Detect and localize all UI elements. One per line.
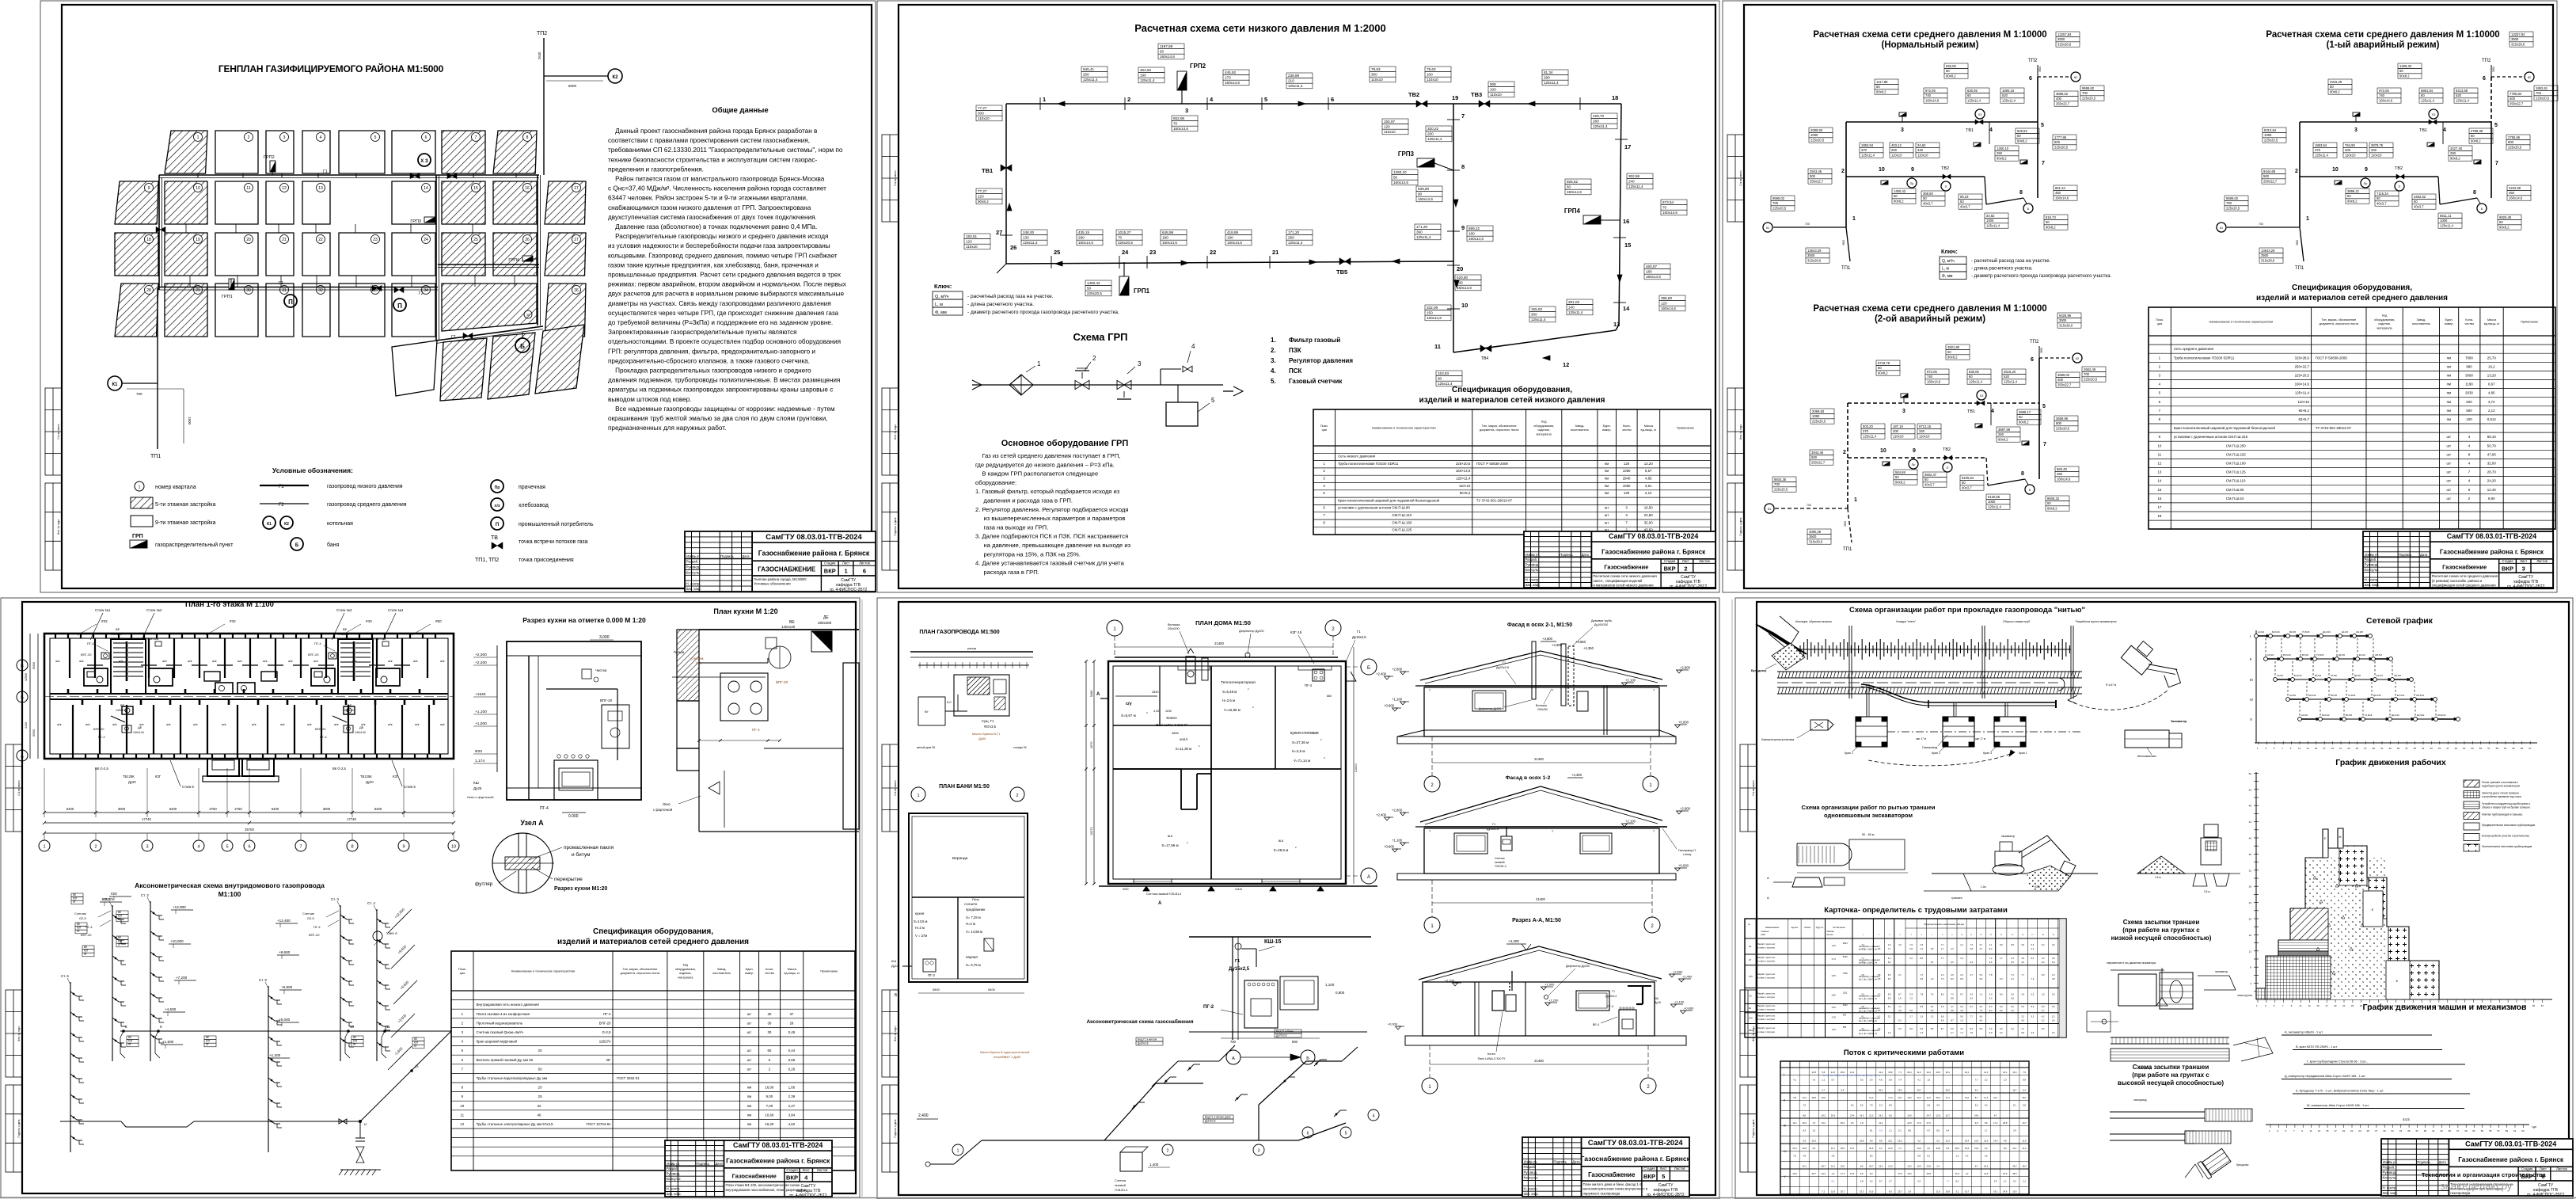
svg-text:8,1: 8,1 — [1832, 1180, 1835, 1183]
svg-text:180: 180 — [1646, 270, 1652, 274]
svg-text:11: 11 — [1970, 934, 1973, 936]
svg-text:+2,300: +2,300 — [475, 653, 487, 657]
svg-text:+2,100: +2,100 — [1445, 979, 1455, 983]
svg-text:(при работе на грунтах с: (при работе на грунтах с — [2122, 927, 2200, 934]
svg-text:7,00: 7,00 — [766, 1104, 773, 1108]
svg-text:110x10: 110x10 — [978, 116, 990, 120]
svg-text:40: 40 — [2249, 837, 2252, 840]
svg-text:#57х3,5: #57х3,5 — [984, 725, 997, 729]
svg-text:11: 11 — [246, 186, 250, 191]
svg-text:18,5: 18,5 — [1841, 1147, 1845, 1150]
svg-text:7,2: 7,2 — [2011, 973, 2014, 976]
svg-text:225x20,5: 225x20,5 — [2054, 146, 2069, 150]
svg-text:ция: ция — [2157, 322, 2162, 325]
svg-text:Зав. каф.: Зав. каф. — [1524, 1192, 1539, 1196]
svg-text:6,3: 6,3 — [2000, 977, 2003, 980]
trench band — [1777, 671, 2082, 672]
svg-text:40а: 40а — [1749, 1029, 1753, 1032]
upper main line — [2300, 121, 2491, 123]
svg-text:ВЕ: ВЕ — [84, 946, 87, 949]
svg-text:2: 2 — [1323, 469, 1325, 473]
svg-text:ГОСТ 10704-91: ГОСТ 10704-91 — [586, 1122, 611, 1126]
svg-text:4410: 4410 — [25, 722, 28, 729]
svg-text:3315,29: 3315,29 — [2330, 80, 2342, 84]
svg-text:изделия,: изделия, — [679, 972, 691, 975]
svg-text:Инв. № подл.: Инв. № подл. — [1739, 424, 1742, 440]
svg-text:30: 30 — [767, 1021, 771, 1025]
svg-text:1: 1 — [917, 794, 919, 798]
svg-text:3: 3 — [1901, 128, 1904, 133]
svg-text:19: 19 — [2331, 747, 2335, 750]
svg-text:Ду70х2,8: Ду70х2,8 — [1276, 1033, 1287, 1037]
svg-text:Ж5,6/3: Ж5,6/3 — [2375, 653, 2382, 657]
svg-text:1405,33: 1405,33 — [2399, 64, 2412, 68]
svg-text:+2,400: +2,400 — [1682, 975, 1693, 979]
svg-text:1,6: 1,6 — [1888, 1031, 1891, 1034]
svg-text:50: 50 — [1946, 69, 1950, 73]
svg-text:27б: 27б — [1749, 975, 1753, 978]
svg-text:пм: пм — [2447, 364, 2451, 368]
svg-text:2755,66: 2755,66 — [2508, 135, 2521, 139]
svg-text:Ж5,6/13: Ж5,6/13 — [2437, 714, 2446, 717]
svg-text:2089,93: 2089,93 — [1812, 409, 1825, 413]
svg-text:16,20: 16,20 — [765, 1122, 774, 1126]
first floor distribution line — [120, 1030, 451, 1032]
svg-text:5: 5 — [226, 845, 228, 850]
block 18 — [115, 233, 158, 276]
svg-text:120: 120 — [966, 240, 972, 244]
svg-text:знаю-делаю.ру: знаю-делаю.ру — [2441, 1180, 2513, 1192]
svg-text:3: 3 — [1902, 409, 1905, 414]
svg-text:СМ.П.Ш.110: СМ.П.Ш.110 — [1338, 513, 1411, 517]
svg-text:Ст. 3: Ст. 3 — [331, 897, 339, 901]
svg-text:траншея: траншея — [1951, 896, 1962, 900]
svg-text:160x14,6: 160x14,6 — [1162, 241, 1177, 245]
svg-text:номер квартала: номер квартала — [155, 485, 196, 490]
svg-text:3: 3 — [2354, 128, 2358, 133]
svg-text:51: 51 — [2473, 1129, 2476, 1132]
svg-text:50: 50 — [2347, 194, 2351, 198]
svg-text:3943,46: 3943,46 — [1810, 169, 1822, 173]
svg-text:3500: 3500 — [2040, 348, 2043, 353]
right vertical street — [537, 175, 538, 325]
svg-text:90x8,2: 90x8,2 — [1997, 157, 2007, 161]
svg-text:2,93: 2,93 — [1832, 1006, 1837, 1009]
svg-text:Г, кран-трубоукладчик Стрела 5: Г, кран-трубоукладчик Стрела 58-36 - 3 ш… — [2307, 1060, 2368, 1064]
svg-text:ТВ: ТВ — [491, 535, 498, 541]
svg-text:Н. контр.: Н. контр. — [2365, 578, 2379, 582]
svg-text:ТП1: ТП1 — [1843, 547, 1852, 552]
svg-text:229,70: 229,70 — [1593, 114, 1604, 118]
svg-text:4: 4 — [1373, 1114, 1375, 1119]
svg-text:2,96: 2,96 — [1832, 994, 1837, 997]
svg-text:6: 6 — [2483, 76, 2486, 82]
svg-text:125x11,4: 125x11,4 — [1288, 84, 1303, 88]
svg-text:Все надземные газопроводы защи: Все надземные газопроводы защищены от ко… — [608, 405, 835, 413]
svg-text:27г: 27г — [1749, 995, 1752, 998]
svg-text:290: 290 — [1544, 76, 1550, 80]
svg-text:3,8: 3,8 — [2052, 977, 2055, 980]
svg-text:Ду15: Ду15 — [1655, 1001, 1661, 1004]
svg-text:Дата: Дата — [2439, 1160, 2447, 1164]
svg-text:К1: К1 — [1766, 226, 1769, 230]
svg-text:50: 50 — [2017, 134, 2021, 138]
svg-text:1450,42: 1450,42 — [1087, 281, 1100, 285]
svg-text:4,2: 4,2 — [2011, 1027, 2014, 1030]
block 1 — [165, 131, 207, 173]
svg-text:ВПГ-20: ВПГ-20 — [81, 933, 92, 937]
svg-text:37: 37 — [2405, 747, 2408, 750]
svg-text:Подпись: Подпись — [1554, 1160, 1567, 1164]
svg-text:15,6: 15,6 — [1965, 1147, 1970, 1150]
filter (diamond) — [1009, 375, 1033, 395]
svg-text:КЗГ: КЗГ — [206, 1040, 211, 1043]
svg-text:2,5: 2,5 — [1851, 1121, 1854, 1125]
svg-text:16,7: 16,7 — [1965, 1189, 1970, 1193]
svg-text:14,6: 14,6 — [1984, 1172, 1989, 1175]
svg-text:27: 27 — [2375, 1129, 2378, 1132]
svg-text:ТВ1: ТВ1 — [1967, 409, 1975, 414]
svg-text:Разраб. грунта экс: Разраб. грунта экс — [1757, 942, 1776, 946]
svg-text:5: 5 — [374, 135, 377, 140]
svg-text:шт: шт — [747, 1049, 752, 1052]
svg-text:пм: пм — [1605, 477, 1609, 481]
svg-text:50: 50 — [2414, 200, 2418, 204]
svg-text:давления подземная, трубопрово: давления подземная, трубопроводы полиэти… — [608, 377, 840, 384]
svg-text:340: 340 — [1919, 429, 1925, 433]
svg-text:1: 1 — [2159, 356, 2161, 360]
svg-text:Б: Б — [1306, 1056, 1309, 1061]
svg-text:50,70: 50,70 — [2487, 443, 2497, 447]
svg-text:7,1: 7,1 — [1888, 947, 1891, 950]
svg-text:4,7: 4,7 — [1822, 1088, 1825, 1091]
svg-text:2: 2 — [1651, 924, 1654, 929]
svg-text:281,03: 281,03 — [1568, 300, 1579, 304]
svg-text:Устройство колодцев под короба: Устройство колодцев под короба крана и — [2482, 802, 2530, 805]
svg-text:11410: 11410 — [1235, 888, 1242, 891]
svg-text:Расчетная схема сети низкого д: Расчетная схема сети низкого давления — [1593, 574, 1657, 578]
svg-text:1,8: 1,8 — [1860, 1121, 1864, 1125]
svg-text:8,3: 8,3 — [1951, 977, 1954, 980]
sheet paper edge — [40, 1, 876, 592]
svg-text:пм: пм — [747, 1086, 751, 1090]
svg-text:7: 7 — [2282, 1004, 2284, 1007]
svg-text:(2-ой аварийный режим): (2-ой аварийный режим) — [1875, 314, 1985, 324]
svg-text:4: 4 — [462, 1040, 464, 1044]
svg-text:пм: пм — [2447, 383, 2451, 386]
svg-text:8,0: 8,0 — [1941, 993, 1944, 996]
gas pipe on facade — [1424, 685, 1659, 687]
svg-text:6400: 6400 — [374, 807, 382, 811]
svg-text:1,6: 1,6 — [1927, 1079, 1930, 1082]
svg-text:5: 5 — [2042, 404, 2046, 409]
svg-text:СамГТУ 08.03.01-ТГВ-2024: СамГТУ 08.03.01-ТГВ-2024 — [1609, 532, 1698, 540]
svg-text:24,6: 24,6 — [1917, 1147, 1921, 1150]
svg-text:7,9: 7,9 — [1909, 943, 1913, 946]
svg-text:50: 50 — [1923, 196, 1927, 200]
svg-text:+0,800: +0,800 — [1384, 704, 1395, 708]
svg-text:ВПГ-20: ВПГ-20 — [315, 727, 326, 731]
svg-text:584,68: 584,68 — [1895, 470, 1905, 474]
svg-text:8,0: 8,0 — [1920, 957, 1923, 960]
svg-text:2: 2 — [1879, 934, 1880, 936]
svg-text:КЗГ: КЗГ — [414, 1041, 419, 1045]
svg-text:160x14,6: 160x14,6 — [1225, 81, 1240, 85]
svg-text:1000: 1000 — [2440, 219, 2448, 223]
svg-text:В3,6/6: В3,6/6 — [2315, 674, 2322, 677]
svg-text:28: 28 — [789, 1021, 793, 1025]
svg-text:2,2: 2,2 — [1879, 1147, 1883, 1150]
svg-text:ПГ-4: ПГ-4 — [98, 735, 105, 739]
svg-text:23,4: 23,4 — [1850, 1113, 1855, 1117]
svg-text:90x8,2: 90x8,2 — [2471, 139, 2481, 143]
svg-text:Е4,5/11: Е4,5/11 — [2417, 714, 2425, 717]
window marks bottom wall — [1134, 879, 1172, 884]
svg-text:6,2: 6,2 — [1888, 961, 1891, 964]
svg-text:Схема засыпки траншеи: Схема засыпки траншеи — [2133, 1064, 2209, 1071]
stove 4 burners plan — [720, 673, 768, 721]
svg-text:СамГТУ 08.03.01-ТГВ-2024: СамГТУ 08.03.01-ТГВ-2024 — [1588, 1139, 1684, 1147]
svg-text:395,80: 395,80 — [1661, 296, 1672, 300]
svg-text:17: 17 — [2334, 1129, 2337, 1132]
svg-text:Газоснабжение района г. Брянск: Газоснабжение района г. Брянск — [2458, 1155, 2564, 1163]
svg-text:S=5,67 м: S=5,67 м — [1121, 714, 1136, 717]
stepped resource areas — [2305, 858, 2386, 999]
svg-text:2: 2 — [1187, 841, 1188, 844]
svg-text:7,6: 7,6 — [1931, 993, 1934, 996]
svg-text:ж/к: ж/к — [166, 722, 171, 726]
svg-text:5,1: 5,1 — [1898, 1129, 1902, 1132]
svg-text:ед-ницы, кг: ед-ницы, кг — [2484, 322, 2500, 325]
svg-text:СамГТУ 08.03.01-ТГВ-2024: СамГТУ 08.03.01-ТГВ-2024 — [733, 1141, 823, 1149]
workers chart axes — [2255, 772, 2257, 999]
svg-text:парная: парная — [966, 955, 978, 959]
svg-text:1,5: 1,5 — [1960, 1019, 1963, 1022]
svg-text:7,7: 7,7 — [1946, 1180, 1949, 1183]
svg-text:13: 13 — [318, 186, 323, 191]
svg-text:190: 190 — [1140, 74, 1146, 78]
svg-text:225x20,5: 225x20,5 — [1118, 241, 1133, 245]
dashed arc to Kran 1 — [1868, 752, 2015, 766]
svg-text:Примечание: Примечание — [820, 970, 838, 973]
svg-text:5: 5 — [1662, 1173, 1665, 1180]
svg-text:28,2: 28,2 — [1955, 1147, 1960, 1150]
kitchen gas equipment detail — [1189, 936, 1371, 938]
svg-text:5861,94: 5861,94 — [2421, 89, 2434, 93]
svg-text:гр. 4-ФИСПОС-2БТ2: гр. 4-ФИСПОС-2БТ2 — [1647, 1193, 1684, 1197]
svg-text:Сборка и сварка труб: Сборка и сварка труб — [2003, 620, 2030, 623]
svg-text:арматуры на подземных газоп: арматуры на подземных газопроводах запро… — [608, 386, 833, 394]
svg-text:8: 8 — [1323, 520, 1325, 524]
svg-text:ГРП1: ГРП1 — [1134, 287, 1150, 295]
svg-text:35: 35 — [2407, 1129, 2411, 1132]
svg-text:Согласовано: Согласовано — [17, 780, 21, 795]
svg-text:225x20,5: 225x20,5 — [2056, 427, 2070, 431]
svg-text:400: 400 — [2056, 97, 2062, 101]
svg-text:Г1: Г1 — [1492, 823, 1495, 826]
svg-text:10: 10 — [451, 845, 456, 850]
mini tables normal — [1875, 79, 1898, 84]
svg-text:50: 50 — [1947, 350, 1951, 354]
svg-text:пм: пм — [2447, 400, 2451, 404]
svg-text:9: 9 — [2159, 435, 2161, 439]
section body — [1423, 982, 1655, 1036]
GRP flag avar1 — [2353, 112, 2360, 116]
svg-text:50: 50 — [1087, 287, 1092, 291]
svg-text:17: 17 — [2031, 934, 2034, 936]
svg-text:19: 19 — [2053, 934, 2055, 936]
svg-text:4,1: 4,1 — [1917, 1079, 1921, 1082]
svg-text:600: 600 — [2056, 421, 2062, 425]
window in section — [1576, 991, 1609, 1011]
svg-text:+4,600: +4,600 — [165, 1007, 177, 1011]
svg-text:9599,82: 9599,82 — [2082, 86, 2095, 90]
inner vertical main — [1453, 104, 1454, 352]
svg-text:1,2м: 1,2м — [1981, 885, 1986, 889]
svg-text:11: 11 — [461, 1113, 465, 1117]
bulldozer and pipe stack left — [1756, 624, 1791, 646]
svg-text:измер.: измер. — [2445, 322, 2454, 325]
svg-text:3,0: 3,0 — [2011, 993, 2014, 996]
svg-text:2: 2 — [1332, 627, 1335, 632]
svg-text:7: 7 — [2159, 409, 2161, 413]
svg-text:Сетевой график: Сетевой график — [2366, 616, 2434, 626]
svg-text:Чистка: Чистка — [595, 668, 607, 672]
svg-text:2,12: 2,12 — [1645, 491, 1652, 495]
svg-text:кольцевыми. Газопровод среднег: кольцевыми. Газопровод среднего давления… — [608, 252, 838, 259]
svg-text:110x10: 110x10 — [1384, 130, 1396, 134]
svg-text:11Б27п: 11Б27п — [101, 897, 114, 901]
svg-text:63×5,7: 63×5,7 — [2298, 417, 2309, 421]
svg-text:ТВ5: ТВ5 — [1336, 268, 1347, 276]
svg-text:ТП1, ТП2: ТП1, ТП2 — [475, 558, 499, 563]
svg-text:Подпись и дата: Подпись и дата — [1752, 1119, 1755, 1137]
svg-text:315x28,6: 315x28,6 — [1807, 259, 1822, 263]
svg-text:25,3: 25,3 — [1841, 1121, 1845, 1125]
svg-text:120: 120 — [1624, 462, 1630, 466]
svg-text:Консульт.: Консульт. — [2365, 568, 2380, 572]
svg-text:Окончательные испытания трубоп: Окончательные испытания трубопроводов. — [2482, 845, 2532, 848]
svg-text:9,5: 9,5 — [1860, 1079, 1864, 1082]
svg-text:67: 67 — [2541, 1004, 2544, 1007]
svg-text:Газоснабжение района г. Брянск: Газоснабжение района г. Брянск — [726, 1156, 830, 1164]
svg-text:+0,800: +0,800 — [1684, 1007, 1694, 1011]
svg-text:0.000: 0.000 — [568, 814, 579, 819]
svg-text:1890,16: 1890,16 — [2002, 89, 2015, 93]
svg-text:ГОСТ 3262-01: ГОСТ 3262-01 — [617, 1076, 640, 1080]
svg-text:6,3: 6,3 — [1888, 973, 1891, 976]
svg-text:А3,9/2: А3,9/2 — [2258, 630, 2265, 634]
svg-text:6: 6 — [2029, 76, 2032, 82]
svg-text:5,5: 5,5 — [2021, 1019, 2024, 1022]
svg-text:Б: Б — [21, 696, 24, 701]
svg-text:90x8,2: 90x8,2 — [2399, 74, 2410, 78]
svg-text:Вюд Г1 в жилые дома: Вюд Г1 в жилые дома — [1205, 1115, 1231, 1118]
svg-text:14: 14 — [424, 186, 428, 191]
svg-text:ПГ-4: ПГ-4 — [1607, 1005, 1613, 1008]
svg-text:Газоснабжение района г. Брянск: Газоснабжение района г. Брянск — [1601, 547, 1706, 555]
svg-text:Аксонометрическая схема внутри: Аксонометрическая схема внутридомового г… — [135, 881, 325, 889]
svg-text:33: 33 — [2388, 747, 2392, 750]
svg-text:110x10: 110x10 — [2345, 154, 2356, 158]
svg-text:171,20: 171,20 — [1416, 225, 1427, 229]
svg-text:ж.к: ж.к — [1168, 834, 1173, 838]
svg-text:пм: пм — [1605, 491, 1609, 495]
svg-text:СМ.П.Ш.110: СМ.П.Ш.110 — [2174, 479, 2246, 483]
svg-text:41: 41 — [2432, 1129, 2435, 1132]
svg-text:6,2: 6,2 — [2042, 943, 2045, 946]
svg-text:3: 3 — [1258, 1149, 1260, 1154]
svg-text:ВКР: ВКР — [786, 1174, 798, 1181]
svg-text:8: 8 — [2021, 471, 2024, 477]
svg-text:Копел: Копел — [1166, 716, 1177, 721]
svg-text:4: 4 — [1191, 343, 1195, 350]
svg-text:G2,5: G2,5 — [79, 916, 86, 920]
svg-text:1150: 1150 — [1165, 710, 1172, 713]
svg-text:3,2: 3,2 — [1888, 1015, 1891, 1018]
svg-text:ция: ция — [460, 972, 465, 975]
svg-text:Пози-: Пози- — [2156, 318, 2164, 322]
svg-text:ГРП: ГРП — [132, 534, 143, 539]
svg-text:+1,100: +1,100 — [1674, 1000, 1685, 1004]
svg-text:120: 120 — [1661, 302, 1667, 306]
svg-text:926,52: 926,52 — [2017, 129, 2027, 133]
svg-text:7,2: 7,2 — [1898, 1005, 1902, 1008]
svg-text:50 - 80 м: 50 - 80 м — [1862, 833, 1875, 836]
svg-text:ТП1: ТП1 — [1841, 266, 1851, 271]
svg-text:5,8: 5,8 — [1985, 1121, 1988, 1125]
svg-text:160x14,6: 160x14,6 — [1227, 241, 1242, 245]
svg-text:Укладка "плеть": Укладка "плеть" — [1896, 620, 1917, 623]
svg-text:15: 15 — [2315, 747, 2318, 750]
svg-text:13543,29: 13543,29 — [2261, 249, 2275, 253]
svg-text:8606,32: 8606,32 — [2047, 497, 2060, 501]
svg-text:40x3,7: 40x3,7 — [1960, 205, 1970, 209]
svg-text:Печь: Печь — [972, 897, 979, 901]
svg-text:932,05: 932,05 — [1946, 64, 1956, 68]
svg-text:926,52: 926,52 — [1567, 180, 1578, 184]
block 7 — [442, 131, 485, 173]
svg-text:+1,600: +1,600 — [162, 1040, 174, 1044]
block 21 — [266, 233, 294, 276]
svg-text:Кран 2: Кран 2 — [1932, 752, 1940, 755]
GRP3 flag — [424, 217, 435, 223]
svg-text:ГРП4: ГРП4 — [508, 258, 519, 263]
svg-text:250x22,7: 250x22,7 — [2510, 102, 2524, 106]
svg-text:700: 700 — [2536, 91, 2542, 95]
right axis circles — [1361, 659, 1377, 675]
svg-text:2030: 2030 — [2465, 391, 2473, 395]
svg-text:16,00: 16,00 — [765, 1086, 774, 1090]
svg-text:630,05: 630,05 — [1967, 89, 1978, 93]
svg-text:Ду15х2,8: Ду15х2,8 — [1352, 635, 1366, 639]
svg-text:2,7: 2,7 — [1889, 1180, 1892, 1183]
svg-text:- длина расчетного участка.: - длина расчетного участка. — [1971, 267, 2033, 272]
svg-text:Газ из сетей среднего давления: Газ из сетей среднего давления поступает… — [975, 452, 1120, 459]
svg-text:2,6: 2,6 — [1989, 961, 1993, 964]
svg-text:250x22,7: 250x22,7 — [1810, 180, 1824, 184]
svg-text:7: 7 — [2042, 161, 2045, 166]
svg-text:шт: шт — [2447, 488, 2452, 492]
svg-text:764,90: 764,90 — [2345, 143, 2355, 147]
svg-text:21400: 21400 — [1534, 757, 1544, 761]
svg-text:9,9: 9,9 — [1980, 1015, 1983, 1018]
svg-text:160×14,6: 160×14,6 — [1456, 469, 1471, 473]
svg-text:40x3,7: 40x3,7 — [1924, 483, 1935, 487]
svg-text:1000: 1000 — [1986, 219, 1994, 223]
svg-text:31: 31 — [2392, 1129, 2395, 1132]
svg-text:6: 6 — [1331, 96, 1334, 103]
